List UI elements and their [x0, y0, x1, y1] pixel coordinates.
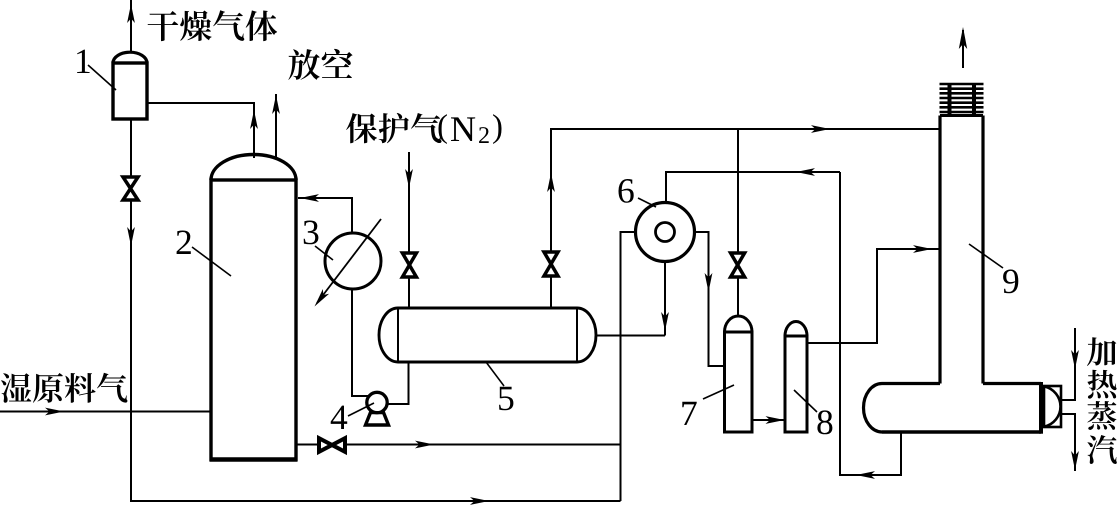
vessel 8 body: [785, 336, 807, 432]
pipe: pump 4 discharge up to vessel 5: [388, 362, 409, 404]
pipe: blower 6 right connection down to vessel 7: [695, 232, 725, 366]
vessel 7 dome: [725, 316, 753, 332]
pipe: rotameter down to pump 4 suction: [352, 289, 368, 396]
vessel 8 dome: [785, 322, 807, 337]
pipe: column 2 bottom outlet line: [296, 444, 621, 446]
leader line for label 9: [969, 244, 1003, 268]
column 9 neck right wall: [972, 84, 976, 118]
label 放空 (vent): [288, 49, 319, 80]
blower 6 inner circle: [656, 223, 675, 242]
pipe: dry gas outlet line above vessel 1: [130, 0, 132, 53]
leader line for label 8: [794, 390, 817, 412]
reboiler drum right wall: [1039, 382, 1043, 434]
reboiler drum top edge right: [983, 382, 1041, 385]
vessel 5 left cap seam: [397, 308, 399, 362]
valve on vessel 7 branch: [731, 253, 745, 277]
pipe: vessel 7 to vessel 8: [752, 419, 784, 421]
reboiler drum bottom edge: [882, 430, 1041, 433]
pump 4 base: [366, 413, 389, 426]
vessel 5 horizontal drum: [379, 308, 596, 362]
pipe: vessel 5 vapor line up: [551, 129, 940, 308]
leader line for label 3: [315, 246, 333, 260]
label 7: [682, 402, 696, 425]
arrow down on vessel 1 down line: [127, 227, 135, 246]
label 干燥气体 (dry gas): [148, 11, 179, 41]
pipe: column 9 top vent arrow: [962, 30, 964, 68]
label 9: [1003, 270, 1018, 294]
leader line for label 7: [703, 385, 734, 399]
valve on vessel 1 down line: [123, 177, 138, 200]
pipe: bottom recycle line: [130, 500, 621, 502]
column 2 bottom thick edge: [210, 457, 298, 462]
label 4: [331, 406, 348, 429]
label 5: [499, 387, 513, 411]
pipe: heating steam inlet: [1061, 328, 1075, 400]
pipe: heating steam outlet: [1061, 414, 1075, 471]
label 8: [817, 410, 832, 434]
pipe: vessel 1 outlet to overhead line: [147, 103, 254, 158]
valve on column 2 bottom outlet: [319, 438, 345, 452]
pipe: blower 6 suction from regeneration loop: [666, 172, 840, 203]
rotameter 3 diagonal line with arrow: [317, 219, 381, 303]
label 保护气 (protective gas): [346, 113, 377, 143]
valve on N2 line: [402, 253, 416, 277]
pipe: branch down to vessel 7 with valve: [737, 129, 739, 316]
rotameter 3 circle: [325, 233, 381, 289]
pipe: vessel 8 outlet up to column 9: [807, 249, 940, 343]
pipe: reboiler drum bottom to regeneration return: [840, 172, 901, 475]
column 2 body: [211, 180, 296, 460]
vessel 1 body: [113, 63, 147, 119]
leader line for label 1: [88, 65, 116, 90]
label 3: [304, 221, 319, 245]
pipe: vessel 1 down line to bottom recycle: [130, 119, 132, 501]
pipe: N2 protective gas line down to vessel 5: [408, 152, 410, 309]
label (N2): [439, 114, 447, 144]
reboiler drum left cap: [864, 384, 882, 433]
leader line for label 6: [638, 198, 656, 207]
column 9 neck left wall: [948, 84, 952, 118]
label 6: [619, 179, 634, 203]
column 9 top edge: [940, 114, 983, 117]
column 9 packing hatch lines: [940, 84, 984, 112]
vessel 5 right cap seam: [576, 308, 578, 362]
pump 4 circle: [367, 392, 387, 412]
leader line for label 2: [192, 247, 231, 276]
label 加热蒸汽 (heating steam): [1087, 337, 1116, 366]
label 湿原料气 (wet feed gas): [1, 373, 31, 403]
column 9 left wall: [938, 116, 941, 384]
blower 6 outer circle: [636, 203, 695, 262]
reboiler drum top edge left: [882, 382, 940, 385]
label 1: [77, 50, 90, 73]
pipe: blower 6 left connection down to recycle: [621, 232, 636, 501]
valve on vessel 5 vapor line: [544, 252, 558, 276]
vessel 7 body: [725, 332, 753, 432]
label 2: [177, 231, 191, 255]
pipe: vessel 5 right outlet to blower line: [596, 335, 665, 337]
pipe: rotameter to column 2 regeneration inlet: [298, 198, 352, 233]
reboiler drum right cap box: [1044, 386, 1061, 427]
leader line for label 5: [486, 362, 504, 386]
pipe: wet feed gas line 湿原料气: [0, 411, 211, 413]
leader line for label 4: [348, 403, 374, 416]
vessel 1 (filter/knockout pot) dome: [113, 52, 147, 63]
pipe: blower 6 bottom discharge: [664, 262, 666, 336]
column 9 right wall: [981, 116, 984, 384]
reboiler drum right cap arc: [1045, 387, 1061, 427]
pipe: vent line 放空: [275, 94, 277, 157]
column 2 dome: [211, 155, 296, 181]
